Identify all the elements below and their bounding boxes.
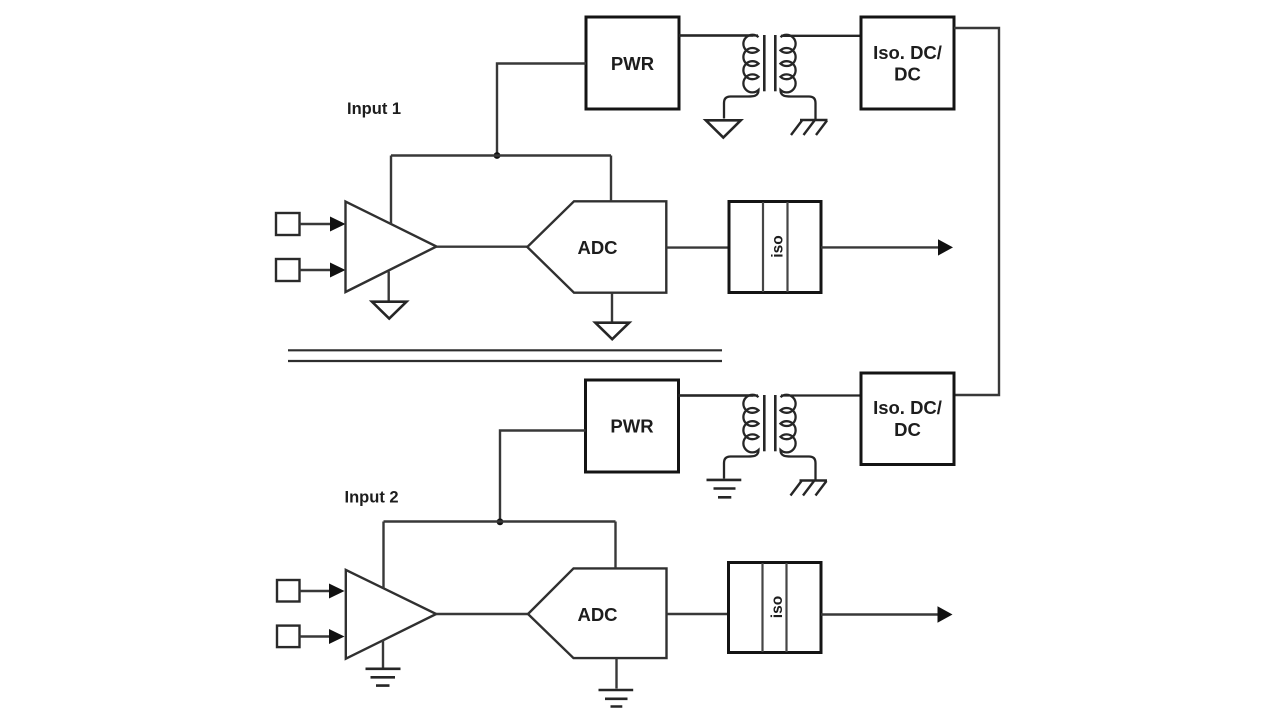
chassis ground under T1 secondary bbox=[791, 120, 828, 135]
arrowhead into A2 input 1 bbox=[329, 584, 345, 599]
svg-text:iso: iso bbox=[769, 596, 786, 618]
wire bus channel 2 bbox=[384, 520, 616, 522]
wire PWR1 left to node N1 bbox=[497, 64, 586, 156]
svg-text:iso: iso bbox=[770, 235, 787, 257]
svg-text:Iso. DC/: Iso. DC/ bbox=[873, 42, 942, 63]
wire bus channel 1 bbox=[391, 154, 611, 156]
wire ADC U1 bottom to ground bbox=[611, 293, 613, 322]
earth ground under T2 primary bbox=[707, 480, 742, 497]
wire ISO2 output bbox=[821, 613, 939, 615]
arrowhead output 2 bbox=[938, 606, 953, 622]
node N2 junction dot bbox=[497, 518, 504, 525]
wire A2 underside to ground bbox=[382, 640, 384, 668]
chassis ground under T2 secondary bbox=[791, 481, 828, 496]
Iso DC/DC converter block 1 bbox=[861, 17, 954, 109]
wire ADC U2 bottom to ground bbox=[615, 658, 617, 688]
earth ground under ADC U2 bbox=[599, 690, 634, 707]
svg-text:Iso. DC/: Iso. DC/ bbox=[873, 397, 942, 418]
svg-text:ADC: ADC bbox=[577, 604, 617, 625]
input terminal square J4 bbox=[277, 626, 300, 648]
wire ADC U1 to iso barrier ISO1 bbox=[666, 246, 729, 248]
svg-text:PWR: PWR bbox=[611, 53, 654, 74]
ADC U1 bbox=[527, 201, 666, 292]
wire bus down to ADC U2 top bbox=[614, 522, 616, 569]
wire PWR2 left to node N2 bbox=[500, 431, 586, 522]
wire J1 to amp A1 bbox=[300, 223, 334, 225]
svg-text:Input 2: Input 2 bbox=[345, 488, 399, 506]
digital isolator ISO1 bbox=[729, 202, 821, 293]
op-amp A2 bbox=[346, 570, 436, 659]
transformer T1 core bbox=[763, 35, 766, 91]
ground (triangle) under T1 primary bbox=[706, 120, 741, 137]
arrowhead output 1 bbox=[938, 239, 953, 255]
digital isolator ISO2 bbox=[729, 563, 822, 653]
op-amp A1 bbox=[346, 202, 437, 293]
svg-text:DC: DC bbox=[894, 419, 921, 440]
input terminal square J1 bbox=[276, 213, 300, 235]
transformer T2 primary winding bbox=[679, 395, 759, 479]
arrowhead into A1 input 2 bbox=[330, 263, 346, 278]
arrowhead into A2 input 2 bbox=[329, 629, 345, 644]
arrowhead into A1 input 1 bbox=[330, 217, 346, 232]
power block PWR2 bbox=[586, 380, 679, 472]
wire bus down to A1 top edge bbox=[390, 156, 392, 225]
svg-text:Input 1: Input 1 bbox=[347, 100, 401, 118]
wire A2 output to ADC U2 bbox=[436, 613, 529, 615]
ADC U2 bbox=[528, 568, 667, 658]
transformer T1 primary winding bbox=[679, 35, 759, 119]
svg-text:ADC: ADC bbox=[577, 237, 617, 258]
wire J4 to amp A2 bbox=[300, 635, 332, 637]
input terminal square J3 bbox=[277, 580, 300, 602]
transformer T2 secondary winding bbox=[781, 395, 862, 480]
ground (triangle) under ADC U1 bbox=[595, 323, 629, 340]
isolation barrier separator lines bbox=[288, 349, 722, 351]
wire J2 to amp A1 bbox=[300, 269, 334, 271]
wire Iso DC/DC 1 output to channel 2 supply bbox=[954, 28, 999, 395]
svg-text:DC: DC bbox=[894, 64, 921, 85]
wire J3 to amp A2 bbox=[300, 590, 332, 592]
Iso DC/DC converter block 2 bbox=[861, 373, 954, 465]
wire A1 output to ADC U1 bbox=[437, 245, 529, 247]
transformer T2 core bbox=[763, 395, 766, 451]
input terminal square J2 bbox=[276, 259, 300, 281]
ground (triangle) under A1 bbox=[372, 302, 407, 319]
wire bus down to ADC U1 top bbox=[610, 156, 612, 202]
wire ADC U2 to iso barrier ISO2 bbox=[667, 613, 729, 615]
wire bus down to A2 top edge bbox=[382, 522, 384, 589]
power block PWR1 bbox=[586, 17, 679, 109]
svg-text:PWR: PWR bbox=[610, 416, 653, 437]
earth ground under A2 bbox=[366, 669, 401, 686]
wire ISO1 output bbox=[821, 246, 940, 248]
wire A1 underside to ground bbox=[388, 272, 390, 302]
wire PWR1 to transformer T1 bbox=[679, 34, 753, 36]
transformer T1 secondary winding bbox=[781, 35, 862, 119]
node N1 junction dot bbox=[494, 152, 501, 159]
wire PWR2 to transformer T2 bbox=[679, 394, 754, 396]
